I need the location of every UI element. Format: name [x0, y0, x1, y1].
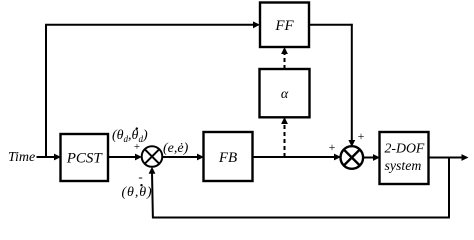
wire feedback vertical down [448, 158, 450, 218]
wire top horizontal into FF [45, 24, 254, 26]
dashed wire main line up to alpha [284, 122, 286, 157]
svg-text:FF: FF [274, 18, 294, 34]
wire PCST to summing junction 1 [108, 156, 136, 158]
svg-text:(θd,θd): (θd,θd) [112, 128, 148, 144]
svg-text:PCST: PCST [66, 151, 104, 167]
wire junction 2 to 2-DOF block [363, 157, 374, 159]
dashed wire alpha up to FF [284, 52, 286, 69]
wire junction 1 to FB [162, 156, 198, 158]
wire feedback vertical up into junction 1 [151, 172, 154, 218]
svg-text:(e,ė): (e,ė) [163, 141, 189, 156]
block FF [260, 3, 309, 48]
summing junction 2 [341, 146, 364, 169]
svg-text:Time: Time [8, 150, 35, 165]
svg-text:(θ,θ): (θ,θ) [122, 185, 153, 200]
svg-text:+: + [358, 129, 365, 143]
svg-text:+: + [134, 141, 140, 153]
block PCST [61, 134, 109, 181]
wire 2-DOF output [429, 157, 463, 159]
block 2-DOF system [380, 132, 429, 184]
summing junction 1 [142, 146, 163, 167]
svg-text:2-DOF: 2-DOF [385, 141, 425, 156]
svg-text:system: system [385, 158, 422, 173]
svg-text:-: - [138, 169, 142, 184]
wire feedback bottom horizontal [152, 217, 450, 219]
svg-text:α: α [281, 87, 289, 102]
block FB [204, 132, 253, 181]
block alpha [260, 69, 310, 117]
wire corner down into summing junction 2 [351, 24, 353, 141]
wire branch vertical to top [45, 25, 47, 158]
svg-text:+: + [329, 140, 336, 154]
wire FB to summing junction 2 [253, 156, 336, 158]
svg-text:FB: FB [218, 150, 237, 166]
wire FF right to corner [309, 24, 353, 26]
wire Time input [37, 156, 56, 158]
